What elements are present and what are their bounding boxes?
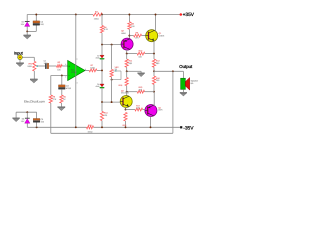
wire D1-C4 bottom bbox=[27, 30, 36, 32]
resistor R14 to -rail bbox=[101, 102, 103, 111]
wire zener D4 stubs bbox=[26, 112, 28, 118]
op-amp IC1 LF351 bbox=[68, 61, 85, 81]
resistor R4 (VAS top) bbox=[100, 26, 103, 33]
terminal +35V bbox=[180, 13, 183, 16]
ground G6 speaker bbox=[182, 89, 184, 92]
node V+ rail bbox=[75, 14, 77, 16]
node diode mid junction bbox=[101, 69, 103, 71]
trimpot VR2 stub bbox=[111, 45, 113, 70]
wire Q2 down bbox=[126, 50, 128, 54]
resistor R8 (Q2 emitter) bbox=[128, 15, 130, 22]
svg-text:+35V: +35V bbox=[183, 12, 195, 18]
zener diode D1 bbox=[25, 20, 30, 22]
resistor R11 left bbox=[125, 59, 128, 67]
wire R9 to Q1 base bbox=[142, 35, 147, 37]
wire C3 to R5b bbox=[61, 89, 63, 95]
svg-text:4148: 4148 bbox=[95, 85, 99, 88]
svg-text:A564: A564 bbox=[121, 32, 125, 35]
wire op-amp V+ V- rail bbox=[75, 15, 77, 128]
node inv junction bbox=[61, 75, 63, 77]
wire mid ground arm bbox=[127, 70, 141, 72]
potentiometer VR1 volume bbox=[33, 61, 36, 71]
transistor Q2 (PNP A564) bbox=[121, 38, 133, 50]
svg-text:LF351: LF351 bbox=[71, 71, 78, 74]
svg-text:100Ω: 100Ω bbox=[88, 130, 93, 133]
wire feedback riser bbox=[172, 71, 174, 133]
resistor R7 bbox=[89, 69, 97, 72]
node bottom rail dots bbox=[36, 126, 38, 128]
diode D3 bbox=[100, 84, 104, 87]
node output mid bbox=[153, 91, 155, 93]
wire D2 to D3 bbox=[101, 59, 103, 84]
wire cap C6 stubs bbox=[36, 112, 38, 118]
wire D3 down to node B bbox=[101, 88, 103, 102]
wire Q3 collector bbox=[126, 92, 128, 97]
wire +35V top rail bbox=[27, 14, 93, 16]
resistor R12 right bbox=[152, 59, 155, 67]
svg-text:Input: Input bbox=[14, 50, 24, 55]
svg-text:C1815: C1815 bbox=[159, 35, 165, 38]
wire VR1 wiper bbox=[38, 65, 46, 67]
wire zener D1 stubs bbox=[26, 15, 28, 22]
wire Q3 emitter bbox=[125, 107, 127, 110]
resistor R17 to Q4 base bbox=[126, 109, 135, 111]
zener diode D4 bbox=[25, 117, 30, 119]
resistor R19 series -rail bbox=[87, 126, 94, 129]
resistor R3 (series +rail filter) bbox=[93, 13, 102, 16]
wire Q4 collector bbox=[153, 92, 155, 107]
resistor R10 bbox=[127, 53, 138, 55]
resistor R2 series input bbox=[57, 65, 63, 68]
svg-text:4: 4 bbox=[77, 82, 78, 85]
wire R8 to Q2 bbox=[128, 29, 130, 39]
node trimpot wiper join bbox=[111, 79, 113, 81]
wire C3 stub bbox=[61, 76, 63, 86]
transistor Q4 (PNP 2SA671) bbox=[145, 105, 157, 117]
wire R14 to bottom rail bbox=[101, 121, 103, 128]
node feedback tap bbox=[172, 70, 174, 72]
resistor R13 bridge bbox=[127, 91, 138, 93]
resistor R9 base Q1 bbox=[134, 34, 142, 37]
wire Q1 emitter bbox=[153, 41, 155, 54]
trimpot VR2 bbox=[110, 69, 113, 77]
resistor R5 gain bbox=[60, 95, 63, 103]
capacitor C6 bbox=[33, 119, 40, 121]
node A wire to Q2 base bbox=[102, 44, 121, 46]
ground G3 under VR1 bbox=[33, 71, 35, 79]
svg-text:Output: Output bbox=[179, 64, 193, 69]
diode D2 bbox=[100, 55, 104, 58]
ground G5 under R5 bbox=[60, 103, 62, 107]
wire cap C4 stubs bbox=[35, 15, 37, 22]
svg-text:100Ω: 100Ω bbox=[90, 66, 95, 69]
svg-text:100K: 100K bbox=[27, 65, 32, 68]
wire feedback line bbox=[51, 132, 173, 134]
node R13 left bbox=[126, 91, 128, 93]
resistor R18 emitter bbox=[124, 112, 127, 121]
node B wire to Q3 base bbox=[102, 101, 121, 103]
ground G4 mid bbox=[140, 71, 142, 73]
capacitor C1 input bbox=[45, 63, 46, 68]
speaker LS1 bbox=[181, 78, 186, 89]
svg-text:100Ω: 100Ω bbox=[94, 18, 99, 21]
svg-text:-35V: -35V bbox=[183, 126, 194, 132]
wire D2 stub bbox=[101, 45, 103, 56]
svg-text:7: 7 bbox=[77, 58, 78, 61]
svg-text:2SC1061: 2SC1061 bbox=[121, 92, 129, 95]
resistor R16 upper bbox=[153, 71, 155, 76]
svg-text:4148: 4148 bbox=[95, 56, 99, 59]
wire R6 to feedback line bbox=[50, 103, 52, 133]
node Q3 emitter bbox=[125, 109, 127, 111]
svg-text:3: 3 bbox=[65, 63, 66, 66]
wire output node bbox=[154, 70, 183, 72]
node R10 ends bbox=[126, 53, 128, 55]
wire inverting input bbox=[51, 75, 68, 77]
svg-text:A671: A671 bbox=[158, 109, 162, 112]
wire R7 to diode chain bbox=[97, 69, 102, 71]
node rail-R4 junction bbox=[101, 14, 103, 16]
svg-text:-: - bbox=[69, 74, 70, 78]
node B dots bbox=[101, 101, 103, 103]
ground G2 under input bbox=[19, 60, 21, 63]
terminal Input jack bbox=[18, 55, 23, 60]
resistor R5a stub top bbox=[101, 15, 103, 26]
wire R2 to op-amp + bbox=[62, 65, 67, 67]
transistor Q1 (NPN) bbox=[146, 30, 158, 42]
resistor R15 left mid bbox=[125, 78, 128, 86]
node A dots bbox=[101, 44, 103, 46]
node Q1 collector rail bbox=[155, 14, 157, 16]
node bottom-left junction bbox=[26, 111, 28, 113]
svg-text:47/50: 47/50 bbox=[66, 87, 72, 90]
wire bottom-left ground net bbox=[16, 111, 36, 113]
ground G7 bbox=[15, 112, 17, 118]
capacitor C4 bbox=[33, 21, 40, 23]
wire VR2 down bbox=[111, 77, 113, 102]
node Q2 collector junction bbox=[128, 35, 130, 37]
wire Q1 collector bbox=[155, 15, 157, 32]
wire op-amp out bbox=[85, 69, 89, 71]
node divider taps bbox=[126, 70, 128, 72]
wire Q4 emitter bbox=[150, 117, 152, 128]
wire to speaker bbox=[182, 71, 184, 78]
capacitor C3 bbox=[59, 85, 66, 87]
svg-text:ElecCircuit.com: ElecCircuit.com bbox=[24, 100, 45, 104]
wire left rail mid bbox=[126, 71, 128, 77]
node top-left junctions bbox=[35, 14, 37, 16]
wire R4 down to node A bbox=[101, 33, 103, 45]
svg-text:4.7K: 4.7K bbox=[104, 28, 109, 31]
ground G1 bbox=[26, 31, 28, 35]
wire inv down to R6 bbox=[50, 76, 52, 96]
resistor R6 feedback bbox=[49, 95, 52, 103]
wire -35V bottom rail bbox=[27, 126, 86, 128]
transistor Q3 (NPN 2SC1061) bbox=[120, 96, 132, 108]
wire C1 to R2 bbox=[49, 65, 57, 67]
wire input to VR1 bbox=[22, 56, 34, 58]
terminal -35V bbox=[180, 126, 182, 128]
